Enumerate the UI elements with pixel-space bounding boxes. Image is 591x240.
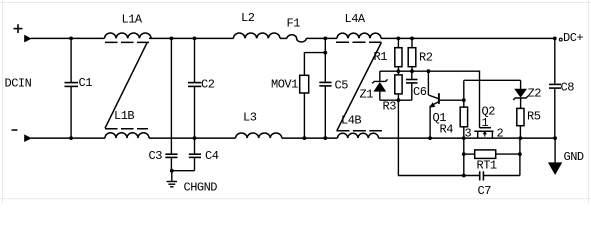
core bar L4 top (dashed) — [336, 41, 382, 43]
capacitor C8 — [549, 83, 561, 85]
thermistor RT1 — [464, 153, 475, 155]
node RT1 right — [518, 152, 522, 156]
svg-text:R4: R4 — [440, 122, 454, 136]
label C2 — [201, 78, 215, 92]
node bottom C1 — [69, 136, 73, 140]
wire bottom between L3 and L4B — [282, 137, 338, 139]
svg-text:R2: R2 — [419, 50, 433, 64]
core bar L4 bottom (dashed) — [336, 130, 382, 132]
svg-text:L2: L2 — [241, 11, 255, 25]
resistor R3 — [395, 75, 402, 94]
inductor L4B — [338, 133, 379, 138]
resistor R5 — [517, 108, 524, 125]
resistor R1 — [397, 38, 399, 47]
transistor Q1 — [427, 71, 429, 95]
node top C2 branch — [193, 37, 197, 41]
node top DC+/C8 — [553, 37, 557, 41]
node Q1 collector — [427, 69, 431, 73]
svg-text:L1B: L1B — [114, 109, 134, 123]
svg-text:C8: C8 — [561, 80, 575, 94]
arrow input positive — [24, 35, 32, 43]
node R3 bottom — [397, 98, 401, 102]
inductor L2 — [233, 33, 280, 38]
node R2 bottom — [410, 69, 414, 73]
varistor MOV1 — [300, 75, 309, 93]
label Q1 — [433, 111, 447, 125]
wire top between L2 and F1 — [280, 37, 287, 39]
inductor L1A — [105, 33, 152, 38]
node bottom MOV1 — [303, 136, 307, 140]
label GND — [564, 150, 584, 164]
svg-text:L1A: L1A — [122, 13, 143, 27]
Q2 left lead pin3 — [477, 131, 479, 138]
svg-text:L3: L3 — [243, 110, 257, 124]
label C7 — [478, 184, 492, 198]
label CHGND — [184, 181, 218, 195]
svg-text:CHGND: CHGND — [184, 181, 218, 195]
node R5 bottom — [519, 136, 523, 140]
node line (Z1/R1/R2/Q1/Q2 gate) — [380, 71, 480, 128]
label C8 — [561, 80, 575, 94]
label R4 — [440, 122, 454, 136]
wire top-left — [31, 37, 105, 39]
svg-text:DC+: DC+ — [563, 31, 583, 45]
label R1 — [374, 50, 388, 64]
label L1B — [114, 109, 134, 123]
svg-text:L4B: L4B — [341, 114, 361, 128]
label C4 — [205, 149, 219, 163]
wire bottom after L4B to GND corner — [379, 137, 556, 139]
link rail R4 to Z2 — [464, 79, 521, 81]
pin 1 — [482, 116, 489, 130]
wire MOV jog — [304, 53, 325, 76]
fuse F1 — [287, 35, 306, 42]
label Z2 — [528, 87, 542, 101]
node top R2 — [410, 37, 414, 41]
svg-text:F1: F1 — [287, 16, 301, 30]
node bottom C5 — [323, 136, 327, 140]
label F1 — [287, 16, 301, 30]
core bar L1 bottom (dashed) — [105, 128, 148, 130]
terminal + (positive input) — [14, 28, 23, 30]
Q2 right lead pin2 — [491, 131, 493, 138]
svg-text:C4: C4 — [205, 149, 219, 163]
svg-text:RT1: RT1 — [477, 159, 497, 173]
svg-text:C2: C2 — [201, 78, 215, 92]
label C1 — [79, 76, 93, 90]
capacitor C1 — [70, 38, 72, 82]
svg-text:C1: C1 — [79, 76, 93, 90]
capacitor C6 — [411, 71, 413, 79]
wire bottom-left — [31, 137, 105, 139]
arrow input negative — [24, 134, 32, 142]
inductor L1B — [105, 133, 149, 138]
svg-text:C5: C5 — [335, 78, 349, 92]
wire RT1 right vertical — [519, 138, 521, 175]
label L4A — [345, 12, 366, 26]
node R1 bottom — [397, 69, 401, 73]
node RT1 left — [462, 152, 466, 156]
label L1A — [122, 13, 143, 27]
node MOV jog — [323, 51, 327, 55]
svg-text:R3: R3 — [383, 99, 397, 113]
node Q1 emitter bottom — [428, 136, 432, 140]
node top C5/MOV branch — [323, 37, 327, 41]
resistor R2 — [411, 38, 413, 47]
label L3 — [243, 110, 257, 124]
wire DC+ down through C8 — [554, 38, 556, 83]
terminal DC+ — [559, 38, 562, 41]
capacitor C2 — [194, 38, 196, 82]
wire C3 branch vertical — [170, 38, 172, 153]
svg-text:Z1: Z1 — [360, 88, 374, 102]
node C8/GND corner — [553, 136, 557, 140]
Q2 channel bar — [474, 130, 493, 132]
resistor R4 — [460, 107, 467, 127]
core diagonal L4 — [337, 43, 381, 131]
svg-text:GND: GND — [564, 150, 584, 164]
label C3 — [149, 149, 163, 163]
svg-text:C3: C3 — [149, 149, 163, 163]
svg-text:C6: C6 — [413, 85, 427, 99]
capacitor C4 — [194, 138, 196, 154]
wire bottom between L1B and L3 — [149, 137, 236, 139]
label C6 — [413, 85, 427, 99]
wire top after L4A to DC+ — [381, 37, 555, 39]
svg-text:R1: R1 — [374, 50, 388, 64]
label MOV1 — [271, 78, 298, 92]
node top C3 branch — [170, 37, 174, 41]
label C5 — [335, 78, 349, 92]
inductor L4A — [337, 33, 381, 38]
label DCIN — [5, 77, 32, 91]
node top R1 — [397, 37, 401, 41]
svg-text:MOV1: MOV1 — [271, 78, 298, 92]
capacitor C5 — [319, 81, 331, 83]
node C7 rail left — [462, 174, 466, 178]
label DC+ — [563, 31, 583, 45]
label Z1 — [360, 88, 374, 102]
svg-text:DCIN: DCIN — [5, 77, 32, 91]
label R3 — [383, 99, 397, 113]
ground GND — [554, 138, 556, 162]
chassis rail — [171, 170, 194, 172]
label L4B — [341, 114, 361, 128]
svg-text:Z2: Z2 — [528, 87, 542, 101]
label R2 — [419, 50, 433, 64]
label RT1 — [477, 159, 497, 173]
label R5 — [527, 109, 541, 123]
svg-text:L4A: L4A — [345, 12, 366, 26]
core diagonal L1 — [105, 43, 147, 129]
inductor L3 — [236, 133, 282, 138]
ground chassis CHGND — [171, 171, 173, 181]
wire C5 vertical — [324, 38, 326, 81]
core bar L1 top (dashed) — [105, 41, 149, 43]
capacitor C7 — [464, 175, 480, 177]
label L2 — [241, 11, 255, 25]
terminal - (negative input) — [12, 129, 18, 131]
node top C1 — [69, 37, 73, 41]
zener Z2 — [520, 80, 522, 89]
pin 2 — [497, 127, 504, 141]
node bottom C2/C4 — [193, 136, 197, 140]
wire top between F1 and L4A — [306, 37, 337, 39]
rail Z1/R3/C6 — [380, 99, 412, 101]
Q2 arrow — [484, 132, 486, 136]
wire top between L1A and L2 — [149, 37, 233, 39]
node chassis — [170, 169, 174, 173]
label Q2 — [482, 104, 496, 118]
zener Z1 — [379, 71, 381, 81]
transistor Q2 (gate bar) — [480, 127, 492, 129]
svg-text:R5: R5 — [527, 109, 541, 123]
capacitor C3 — [165, 153, 177, 155]
svg-text:1: 1 — [482, 116, 489, 130]
svg-text:C7: C7 — [478, 184, 492, 198]
wire RT1 left vertical — [463, 138, 465, 175]
wire R3 down to bottom rail — [398, 100, 463, 175]
node R4 bottom on wire — [462, 136, 466, 140]
pin 3 — [465, 126, 472, 140]
node Q1 base / R4 — [462, 98, 466, 102]
